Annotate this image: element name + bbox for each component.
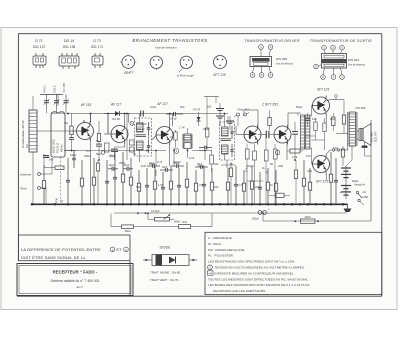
svg-text:AF 115: AF 115 (80, 103, 91, 107)
notes text (208, 236, 310, 293)
capacitor C4 (66, 158, 70, 204)
label D71 (33, 39, 46, 49)
svg-text:50kΩ: 50kΩ (174, 220, 180, 224)
resistor R19 (308, 168, 311, 204)
sub bus dots (137, 212, 264, 214)
wire T1 to Q3 base (140, 135, 157, 162)
svg-text:PM : PAPIER METALLISE .: PM : PAPIER METALLISE . (208, 248, 246, 252)
svg-text:2 74: 2 74 (178, 126, 185, 130)
notes box (205, 232, 382, 294)
svg-text:2kΩ: 2kΩ (182, 220, 187, 224)
svg-text:2,2k: 2,2k (189, 156, 195, 160)
label pile radio (352, 180, 366, 187)
resistor R7 (137, 170, 140, 204)
svg-text:10µF: 10µF (70, 153, 77, 157)
cap 3.4uF (166, 112, 183, 116)
diode panel partition (17, 261, 382, 297)
antenna terminal (19, 173, 52, 177)
resistor R3 (92, 158, 95, 204)
svg-text:470: 470 (199, 183, 204, 187)
resistor base divider lower (323, 118, 326, 150)
resistor 1k interstage (170, 130, 177, 148)
wire Q2 emitter (115, 143, 125, 147)
resistor R20 (329, 152, 332, 204)
svg-text:240: 240 (45, 155, 50, 159)
svg-text:Vue de dessous: Vue de dessous (348, 63, 366, 66)
svg-text:+: + (268, 208, 270, 212)
transistor package DD14 (59, 53, 79, 69)
resistor stack left of output transformer (336, 100, 348, 134)
wire Q3 emitter (169, 144, 171, 166)
tuning gang dashed link (60, 157, 62, 203)
detector diode OA90 (104, 111, 130, 116)
wire base feed Q1 (37, 130, 77, 132)
svg-text:GO C: GO C (53, 85, 57, 92)
interstage transformer cluster (183, 128, 192, 158)
Q1 top pin marker (83, 121, 85, 123)
IF transformer T2 windings (221, 122, 234, 160)
cap 50uF2 row (195, 165, 208, 169)
svg-text:2 SFT 353: 2 SFT 353 (261, 103, 278, 107)
label DIN 068 (276, 57, 294, 65)
svg-text:1,5k: 1,5k (158, 183, 164, 187)
label DD14 (63, 39, 76, 49)
svg-text:TRAIT VERT : OA 79 .: TRAIT VERT : OA 79 . (150, 278, 180, 282)
capacitor T1 tuning upper (147, 122, 150, 135)
svg-text:50kΩ: 50kΩ (124, 229, 130, 233)
wire volume top segment (204, 97, 219, 104)
svg-text:TENSION EN VOLTS MESUREES: TENSION EN VOLTS MESUREES AU VOLTMETRE A… (215, 266, 306, 270)
junction dots mid (67, 113, 296, 161)
svg-text:50µF: 50µF (198, 164, 205, 168)
main schematic frame (18, 34, 382, 296)
svg-text:RECEPTEUR “ FADO -: RECEPTEUR “ FADO - (53, 270, 98, 275)
wire driver to Q6 base (310, 105, 314, 116)
svg-text:1kΩ: 1kΩ (141, 164, 146, 168)
wire T2 to detector (226, 160, 228, 168)
resistor base divider upper (314, 118, 317, 140)
capacitor C6 (105, 160, 109, 204)
capacitor C10 (161, 172, 165, 204)
component value labels (45, 105, 338, 189)
wire center tap output transformer (346, 146, 352, 166)
output transformer drawing DIN 064 (314, 45, 347, 79)
resistor R11 (194, 170, 197, 204)
svg-text:LES BASES DES TRANSISTORS: LES BASES DES TRANSISTORS SONT ENVIRON D… (208, 283, 309, 287)
capacitor C17 (258, 172, 262, 204)
transistor Q7 SFT125 lower (313, 154, 330, 174)
electrolytic pair near volume (216, 103, 224, 126)
neutralization rects (105, 140, 135, 152)
resistor R12 (210, 168, 213, 204)
resistor R15 (250, 166, 253, 204)
wire antenna up (51, 158, 53, 174)
cap 10uF bottom (108, 167, 118, 171)
negative bus thick (31, 203, 348, 205)
capacitor C11 (177, 168, 181, 204)
resistor 50k below (122, 225, 134, 233)
svg-text:10k: 10k (64, 121, 69, 125)
pinout circle 3 point rouge (179, 56, 193, 72)
svg-text:TRAIT JAUNE : OA 85 .: TRAIT JAUNE : OA 85 . (150, 271, 182, 275)
svg-text:1kΩ: 1kΩ (207, 106, 212, 109)
bypass capacitor driver (292, 122, 298, 160)
wire x156 vertical (155, 151, 157, 177)
svg-text:47Ω: 47Ω (307, 169, 312, 173)
wire osc coupling (65, 131, 77, 151)
svg-text:250µF: 250µF (252, 218, 260, 221)
IF transformer T1 dashed box (135, 118, 152, 156)
wire antenna coil top (32, 96, 34, 110)
svg-text:Schéma valable du n° 7 400 001: Schéma valable du n° 7 400 001 (50, 279, 99, 283)
svg-text:TRANSFORMATEUR DRIVER: TRANSFORMATEUR DRIVER (244, 39, 300, 43)
svg-text:DD 14: DD 14 (64, 39, 74, 43)
resistor 100ohm on return wire (295, 215, 319, 224)
capacitor C7 (113, 152, 117, 204)
svg-text:2Ω1 077: 2Ω1 077 (374, 131, 378, 142)
svg-text:39Ω: 39Ω (136, 185, 141, 189)
svg-text:10k: 10k (214, 162, 219, 166)
capacitor C13 (202, 166, 206, 204)
svg-text:2Ω1 138: 2Ω1 138 (63, 45, 76, 49)
svg-text:25µF: 25µF (119, 161, 126, 165)
electrolytic 250uF (252, 208, 270, 221)
transistor Q5 SFT353 (274, 125, 291, 145)
trimmer rail (40, 94, 63, 106)
cap 40uF bottom (123, 167, 133, 171)
resistor R14 (242, 170, 245, 204)
svg-text:2Ω1 171: 2Ω1 171 (91, 45, 104, 49)
wire Q5 collector to driver transformer (288, 113, 301, 128)
cap osc pad (72, 150, 76, 168)
test point circle Q2 (130, 122, 134, 126)
driver transformer in circuit (301, 115, 310, 149)
volume area components left column (199, 103, 213, 172)
capacitor C15 (234, 166, 238, 204)
sub bus wire (114, 212, 347, 214)
svg-text:CV: CV (25, 144, 29, 148)
wire Q4 collector (244, 110, 258, 128)
svg-text:100µF: 100µF (173, 160, 181, 164)
ground terminal terre (20, 187, 46, 205)
wire driver to Q7 base (310, 148, 314, 164)
resistor R6 (129, 158, 132, 204)
wire speaker to feedback (357, 131, 371, 156)
svg-text:100Ω: 100Ω (304, 215, 310, 219)
svg-text:TOUTES LES MESURES SONT EF: TOUTES LES MESURES SONT EFFECTUEES EN PO… (208, 277, 310, 281)
svg-text:100: 100 (306, 154, 311, 158)
svg-text:AF 117: AF 117 (110, 103, 121, 107)
resistor horizontal mid 1 (269, 193, 290, 197)
trimmer capacitor CV (63, 94, 69, 108)
svg-text:PO6: PO6 (56, 198, 59, 203)
svg-text:50: 50 (270, 162, 274, 166)
resistor R2 (80, 160, 83, 204)
svg-text:PO C: PO C (43, 85, 47, 92)
svg-text:10k: 10k (214, 185, 219, 189)
svg-text:4,7k: 4,7k (157, 160, 163, 164)
wire x174 vertical (173, 148, 175, 167)
svg-text:+9v: +9v (362, 190, 367, 194)
resistor left 98 lower (96, 160, 99, 204)
measure point 2 (275, 150, 280, 155)
wire volume net (111, 214, 212, 227)
svg-text:+: + (340, 191, 342, 195)
capacitor C9 (145, 168, 149, 204)
svg-text:10Ω: 10Ω (333, 146, 338, 150)
svg-text:3,4 µF: 3,4 µF (170, 118, 177, 121)
trimmer capacitor GO (54, 94, 60, 108)
electrolytic 2 bars (226, 116, 234, 130)
resistor above coupling cap (268, 110, 271, 130)
svg-text:2Ω1 137: 2Ω1 137 (33, 45, 46, 49)
wire y150 link (64, 150, 205, 152)
pinout circle 2 (150, 56, 162, 70)
resistor 2k below bus (179, 220, 191, 228)
resistor R1 (42, 165, 45, 204)
transistor Q2 AF117 (111, 124, 128, 144)
prise PU jack (234, 113, 249, 117)
title box (17, 264, 133, 296)
wire Q2 collector to T1 (124, 114, 126, 125)
label condensateur CV rotated (21, 120, 29, 148)
wire x195 down (204, 151, 206, 161)
resistor column 296 (294, 160, 297, 204)
capacitor T1 tuning lower (147, 140, 150, 153)
svg-text:Antenne: Antenne (19, 173, 32, 177)
capacitor T2 tuning upper (230, 126, 233, 139)
svg-text:30kΩ: 30kΩ (84, 154, 91, 158)
svg-text:Prise PU: Prise PU (237, 108, 249, 112)
driver area upper tier components (245, 134, 277, 204)
heading BRANCHEMENT TRANSISTORS (132, 38, 207, 50)
svg-text:INTENSITE MESUREE AU CONTRO: INTENSITE MESUREE AU CONTROLEUR UNIVERSE… (215, 271, 296, 275)
svg-text:D 71: D 71 (35, 39, 43, 43)
inline capacitor pair 1 (141, 111, 144, 117)
svg-text:10,5µF: 10,5µF (151, 209, 160, 213)
IF transformer T1 windings (136, 118, 151, 156)
speaker terminal knob (362, 142, 368, 148)
ground symbol battery (344, 204, 352, 212)
label D73 (91, 39, 104, 49)
svg-text:0,1: 0,1 (86, 149, 90, 153)
svg-text:au n°: au n° (76, 285, 84, 289)
signal AVC line (66, 114, 228, 127)
capacitor T2 tuning lower (230, 144, 233, 157)
resistor R10 (185, 162, 188, 204)
resistor column right of Q1 (96, 121, 102, 160)
capacitor C20 (334, 158, 338, 204)
resistor horizontal mid 2 (287, 149, 303, 153)
svg-text:DRIFT: DRIFT (124, 71, 134, 75)
resistor R13 (226, 168, 229, 204)
wire Q6 Q7 emitters (325, 114, 327, 180)
wire Q5 emitter (286, 141, 288, 160)
wire Q1 emitter down (90, 139, 92, 205)
svg-text:DO 12: DO 12 (137, 127, 145, 131)
resistor R8 (153, 166, 156, 204)
svg-text:PL : POLYESTER .: PL : POLYESTER . (208, 254, 235, 258)
svg-text:BLOC OSC: BLOC OSC (52, 139, 56, 153)
svg-text:Terre: Terre (20, 187, 27, 191)
on-off switch (356, 191, 364, 205)
svg-text:ET: ET (117, 247, 123, 252)
svg-text:mA: mA (209, 272, 213, 275)
resistor R17 (274, 170, 277, 204)
svg-text:100: 100 (312, 117, 317, 121)
svg-text:465 kc: 465 kc (60, 144, 64, 152)
wire Q1 collector up (90, 114, 92, 123)
label speaker 2omega1 077 rotated (370, 131, 378, 142)
svg-text:TRANSFORMATEUR DE SORTIE: TRANSFORMATEUR DE SORTIE (310, 39, 372, 43)
svg-text:10nF: 10nF (109, 154, 116, 158)
transistor Q1 AF115 (77, 121, 94, 141)
svg-text:50µF: 50µF (296, 105, 303, 109)
wire Q2 base (104, 114, 112, 135)
wire Q3 collector to T2 (169, 114, 171, 126)
label DIN 064 (348, 58, 366, 66)
svg-text:Condensateur 465 pF: Condensateur 465 pF (21, 120, 25, 148)
resistor R18 (302, 160, 305, 204)
svg-text:220: 220 (255, 185, 260, 189)
svg-text:100µF: 100µF (246, 164, 254, 168)
svg-text:50: 50 (133, 152, 137, 156)
svg-text:25µF: 25µF (203, 127, 210, 131)
volume potentiometer (148, 214, 180, 224)
svg-text:LA DIFFERENCE DE POTENTIEL ENT: LA DIFFERENCE DE POTENTIEL ENTRE (21, 247, 101, 252)
pinout circle drift 1 (120, 56, 136, 69)
wire Q7 collector to output transformer (327, 146, 348, 154)
transistor package D73 (92, 53, 103, 68)
svg-text:V: V (209, 266, 211, 270)
IF transformer T2 dashed box (220, 122, 235, 160)
wire Q6 collector to output transformer (327, 95, 344, 101)
cap 10uF row (147, 164, 160, 168)
svg-text:CV 465: CV 465 (62, 82, 66, 92)
pinout circle SFT125 (214, 56, 227, 69)
svg-text:17µF: 17µF (141, 122, 148, 126)
coupling capacitor Q4 Q5 (258, 131, 275, 138)
svg-text:Varista 9v: Varista 9v (354, 184, 366, 187)
cap 30uF row (160, 168, 173, 172)
svg-text:NEGATIVES QUE LES EMETTEURS: NEGATIVES QUE LES EMETTEURS . (213, 289, 267, 293)
title text RECEPTEUR FADO (50, 270, 99, 290)
svg-text:2,2k: 2,2k (292, 155, 298, 159)
battery (340, 166, 352, 199)
svg-text:D 73: D 73 (93, 39, 101, 43)
potential note text (21, 247, 128, 260)
cap under Q2 (111, 147, 118, 160)
resistor R9 (169, 166, 172, 204)
svg-text:M : MICA .: M : MICA . (208, 242, 223, 246)
svg-text:DIN 068: DIN 068 (276, 57, 287, 61)
resistor column 231 (229, 162, 232, 204)
svg-text:SFT 125: SFT 125 (316, 180, 328, 184)
potential note box (18, 235, 130, 261)
svg-text:Vue de dessous: Vue de dessous (155, 46, 177, 50)
cap volume area (199, 146, 212, 150)
svg-text:AF 117: AF 117 (156, 102, 167, 106)
svg-text:4,7k: 4,7k (238, 183, 244, 187)
svg-text:10Ω: 10Ω (330, 117, 335, 121)
svg-text:OA 90: OA 90 (112, 117, 120, 121)
svg-text:5kΩ: 5kΩ (96, 152, 101, 156)
transistor Q3 AF117 (156, 125, 173, 145)
wire osc block top (46, 108, 48, 113)
wire mid vertical 127 (126, 114, 128, 161)
bias resistors output stage (341, 146, 344, 166)
cap under Q6 left (305, 113, 310, 127)
resistor column right of block (69, 114, 74, 151)
wire PU down (228, 116, 238, 126)
resistor R5 (121, 152, 124, 204)
transistor package D71 (33, 53, 46, 68)
measure point 1 (174, 149, 179, 154)
output transformer in circuit (348, 112, 357, 146)
oscillator block PO GO (51, 113, 65, 157)
bottom return wire (263, 120, 371, 221)
svg-text:CV: CV (61, 199, 64, 203)
svg-text:10µF: 10µF (109, 164, 115, 167)
svg-text:10nF: 10nF (150, 105, 157, 109)
diode OA79 detector (197, 112, 201, 126)
wire driver stage (236, 126, 245, 135)
svg-text:SFT 125: SFT 125 (317, 88, 329, 92)
svg-text:le Point rouge: le Point rouge (177, 74, 194, 78)
resistor R16 (266, 168, 269, 204)
svg-text:C : CERAMIQUE .: C : CERAMIQUE . (208, 236, 234, 240)
svg-text:BRANCHEMENT TRANSISTORS: BRANCHEMENT TRANSISTORS (132, 38, 207, 43)
transistor Q4 SFT353 (244, 125, 261, 145)
svg-text:DOIT ÊTRE SANS SIGNAL DE 1v.: DOIT ÊTRE SANS SIGNAL DE 1v. (21, 255, 86, 260)
diode color code text (150, 271, 182, 283)
resistor under Q6 collector (332, 113, 335, 131)
wire antenna coil to bus (32, 152, 34, 204)
diode drawing (143, 255, 197, 266)
svg-text:SFT 125: SFT 125 (213, 73, 225, 77)
cap 50uF row (171, 164, 184, 168)
svg-text:Vue de dessous: Vue de dessous (276, 62, 294, 65)
svg-text:0,08A: 0,08A (362, 196, 369, 199)
wire output bases join (306, 136, 325, 140)
svg-text:5nF: 5nF (180, 105, 185, 109)
svg-text:OA 79: OA 79 (193, 109, 201, 112)
ferrite antenna coil (29, 110, 37, 152)
svg-text:DIN 068: DIN 068 (356, 106, 366, 110)
svg-text:DIODE: DIODE (160, 246, 171, 250)
bus junction dots (31, 203, 345, 206)
trimmer capacitor PO (44, 94, 50, 108)
svg-text:DIN 064: DIN 064 (348, 58, 359, 62)
resistor 240 horizontal left (43, 154, 64, 170)
loudspeaker (359, 124, 371, 146)
svg-text:10Ω: 10Ω (278, 164, 283, 168)
test point circle left (101, 151, 105, 155)
svg-text:10µF: 10µF (149, 162, 156, 166)
svg-text:LES RESISTANCES NON SPECIFI: LES RESISTANCES NON SPECIFIEES SONT DE ¼… (208, 260, 296, 264)
driver transformer drawing DIN 068 (250, 45, 273, 78)
transistor Q6 SFT125 upper (313, 96, 330, 116)
wire AVC feedback (107, 114, 109, 135)
svg-text:30µF: 30µF (162, 167, 168, 169)
svg-text:P.O G.O: P.O G.O (56, 143, 60, 153)
wire mid horizontal segs (199, 151, 263, 182)
coupling coil bumps (51, 111, 65, 113)
